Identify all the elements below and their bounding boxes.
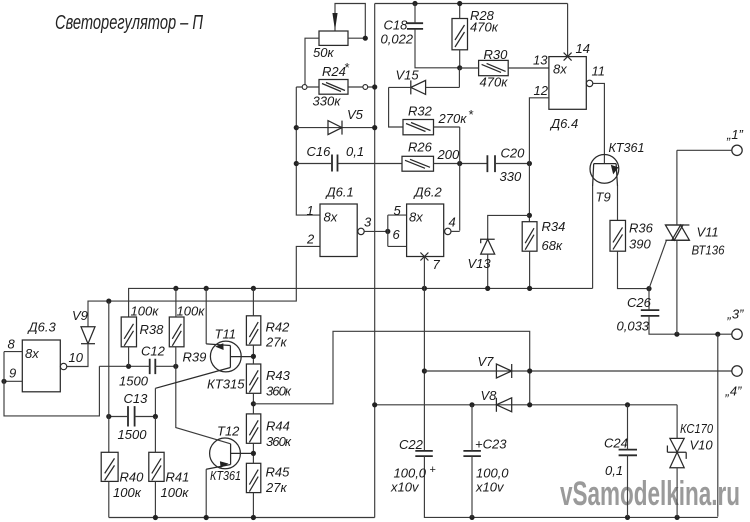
node R42 top junction	[251, 286, 256, 291]
wire terminal1 line	[677, 149, 732, 151]
svg-text:3: 3	[364, 215, 372, 230]
svg-text:1500: 1500	[118, 427, 148, 442]
node R41 bottom junction	[153, 515, 158, 520]
node C18 R28 R30 V15 junction	[457, 65, 462, 70]
node V11 anode junction	[674, 332, 679, 337]
resistor R32 270k	[403, 120, 434, 135]
node V10 bottom junction	[675, 515, 680, 520]
svg-text:R41: R41	[166, 470, 190, 485]
svg-text:R39: R39	[183, 350, 207, 365]
svg-text:Д6.3: Д6.3	[27, 320, 57, 335]
svg-text:R30: R30	[484, 47, 509, 62]
svg-text:С18: С18	[384, 18, 409, 33]
svg-text:4: 4	[449, 215, 456, 230]
svg-text:„3”: „3”	[727, 307, 745, 322]
node T11 emitter junction	[204, 286, 209, 291]
resistor R44 360k	[246, 414, 260, 443]
capacitor C18 0.022	[407, 23, 423, 29]
wire C20 right	[495, 163, 529, 165]
wire V15 to R32	[389, 87, 403, 127]
wire R40 bottom	[108, 481, 110, 517]
op-amp U Д6.4 gate box	[549, 57, 586, 110]
transistor Q T11 KT315	[155, 341, 253, 388]
wire V8 line	[375, 404, 677, 406]
svg-text:КТ315: КТ315	[207, 377, 245, 392]
node R45 bottom junction	[251, 515, 256, 520]
wire triac gate diagonal	[649, 240, 667, 288]
wire V11 main leads	[676, 150, 678, 334]
svg-text:КТ361: КТ361	[210, 468, 241, 483]
svg-text:100к: 100к	[177, 304, 206, 319]
svg-text:х10v: х10v	[475, 480, 505, 495]
svg-text:470к: 470к	[480, 75, 509, 90]
pin 4 output circle	[445, 228, 451, 234]
node V5 rail junction	[372, 125, 377, 130]
node bracket junction	[385, 229, 390, 234]
resistor R24 330k	[319, 80, 348, 95]
wire C26 leads and line 3	[649, 289, 732, 335]
svg-text:+С23: +С23	[475, 437, 507, 452]
svg-text:1500: 1500	[119, 374, 149, 389]
wire pot left lead	[305, 38, 319, 84]
svg-text:27к: 27к	[265, 335, 287, 350]
svg-text:10: 10	[69, 350, 84, 365]
wire right riser	[717, 334, 719, 516]
svg-text:8х: 8х	[409, 210, 423, 225]
node bus riser junction	[715, 332, 720, 337]
resistor R38 100k	[121, 317, 136, 347]
svg-text:68к: 68к	[542, 238, 563, 253]
svg-text:100,0: 100,0	[476, 466, 509, 481]
svg-text:V11: V11	[697, 225, 719, 240]
svg-text:R24: R24	[322, 64, 346, 79]
wire pin3 to bracket	[364, 230, 388, 232]
node triac gate node	[646, 286, 651, 291]
node R39 top junction	[173, 286, 178, 291]
resistor R26 200	[402, 156, 434, 171]
svg-text:470к: 470к	[470, 20, 499, 35]
svg-text:13: 13	[533, 53, 548, 68]
svg-text:С26: С26	[627, 295, 652, 310]
svg-text:14: 14	[576, 41, 590, 56]
svg-text:ВТ136: ВТ136	[692, 243, 726, 258]
svg-text:11: 11	[592, 64, 606, 79]
node V8 rail junction	[372, 402, 377, 407]
svg-text:360к: 360к	[266, 434, 292, 449]
svg-text:7: 7	[433, 257, 441, 272]
wire R39 down and diagonal to T12	[176, 288, 231, 443]
wire V13 down	[487, 254, 489, 288]
svg-text:С12: С12	[141, 344, 166, 359]
wire T11 emitter up	[205, 288, 207, 344]
capacitor C23 100.0	[463, 451, 481, 456]
svg-text:0,022: 0,022	[381, 32, 414, 47]
svg-text:100к: 100к	[113, 485, 142, 500]
triac V11 BT136	[665, 225, 689, 240]
node C13 right junction	[153, 414, 158, 419]
node C18 top junction	[412, 1, 417, 6]
svg-text:R43: R43	[266, 368, 291, 383]
node C23 top junction	[469, 402, 474, 407]
terminal 4	[732, 366, 742, 376]
wire R32 feedback vertical	[434, 127, 460, 231]
svg-text:330к: 330к	[313, 94, 342, 109]
resistor R41 100k	[149, 452, 164, 481]
svg-text:R45: R45	[266, 465, 291, 480]
svg-text:R42: R42	[266, 320, 291, 335]
wire pin8 pin9	[4, 352, 22, 382]
potentiometer 50k wiper arrow	[332, 13, 337, 31]
svg-text:R38: R38	[140, 322, 165, 337]
diode V8	[496, 398, 511, 412]
svg-text:330: 330	[500, 169, 522, 184]
capacitor C13 1500	[128, 406, 135, 426]
wire T9 collector down to 288 line	[592, 186, 594, 288]
node C24 bottom junction	[625, 515, 630, 520]
resistor R42 27k	[246, 316, 260, 345]
wire top bus	[375, 3, 568, 5]
wire V13 branch	[488, 215, 530, 239]
wire C13 branch from T11	[154, 388, 156, 416]
svg-text:КС170: КС170	[680, 421, 714, 436]
diode V7	[496, 364, 511, 378]
svg-text:Т12: Т12	[217, 424, 240, 439]
resistor R40 100k	[101, 452, 118, 481]
svg-text:С20: С20	[501, 146, 526, 161]
svg-text:9: 9	[9, 366, 16, 381]
wire V7 line to terminal 4	[424, 370, 731, 372]
svg-text:С22: С22	[399, 437, 424, 452]
wire 301 line V9 to pin2	[88, 246, 320, 326]
wire R36 bottom to gate node	[618, 251, 650, 288]
node V5 left junction	[294, 125, 299, 130]
node V13 bottom junction	[485, 286, 490, 291]
wire pin9 net to C12	[4, 352, 99, 416]
wire C18 leads	[415, 4, 459, 68]
wire C22 bottom and right bus	[424, 456, 717, 517]
node V13 branch junction	[527, 213, 532, 218]
svg-text:8х: 8х	[324, 210, 338, 225]
transistor Q T12 KT361	[206, 438, 253, 469]
node pin12 C20 junction	[528, 162, 530, 164]
wire pot right lead	[348, 37, 365, 39]
node T12 base junction	[251, 451, 256, 456]
svg-text:Светорегулятор – П: Светорегулятор – П	[55, 12, 203, 34]
node pin8 pin9 junction	[1, 379, 6, 384]
op-amp U Д6.2 gate box	[407, 204, 444, 257]
wire R38 bottom lead	[128, 347, 130, 367]
svg-text:vSamodelkina.ru: vSamodelkina.ru	[560, 475, 740, 513]
node C20 right junction	[527, 161, 532, 166]
svg-text:V15: V15	[396, 68, 420, 83]
pin 12 wire	[529, 98, 549, 222]
capacitor C16 0.1	[332, 155, 338, 172]
svg-text:R40: R40	[120, 470, 145, 485]
terminal 3	[732, 329, 742, 339]
node R28 top junction	[457, 1, 462, 6]
svg-text:R36: R36	[629, 221, 654, 236]
svg-text:2: 2	[306, 232, 315, 247]
wire R42-R45 column leads	[252, 288, 254, 517]
svg-text:R34: R34	[542, 219, 566, 234]
resistor R43 360k	[246, 364, 260, 393]
potentiometer 50k body	[319, 31, 348, 45]
svg-text:+: +	[430, 464, 436, 476]
svg-text:V13: V13	[468, 256, 492, 271]
wire V15 line	[389, 68, 460, 88]
svg-text:Т9: Т9	[596, 190, 611, 205]
wire C13 branch vertical	[108, 301, 110, 452]
node C13 branch top junction	[106, 299, 111, 304]
node C23 bottom junction	[469, 515, 474, 520]
pin 11 output circle	[586, 80, 592, 86]
svg-text:390: 390	[629, 237, 651, 252]
op-amp U Д6.3 gate box	[22, 340, 60, 392]
resistor R30 470k	[479, 60, 509, 75]
svg-text:100к: 100к	[131, 304, 160, 319]
svg-text:V5: V5	[347, 107, 364, 122]
wire pin5 pin6 bracket	[388, 215, 407, 246]
wire C24 leads	[627, 405, 629, 518]
wire route R43R44 to V7V8	[253, 331, 529, 405]
svg-text:х10v: х10v	[390, 480, 420, 495]
wire C23 leads	[471, 405, 473, 518]
svg-text:8: 8	[8, 337, 16, 352]
svg-text:6: 6	[393, 227, 401, 242]
diode V5	[328, 121, 342, 135]
resistor R45 27k	[246, 463, 260, 492]
node R24 left terminal circle	[302, 85, 307, 90]
pin 14 cross mark	[564, 53, 572, 61]
svg-text:С16: С16	[307, 144, 332, 159]
capacitor C26 0.033	[641, 310, 660, 316]
svg-text:„4”: „4”	[725, 384, 743, 399]
svg-text:12: 12	[534, 83, 549, 98]
svg-text:„1”: „1”	[726, 127, 744, 142]
svg-text:V10: V10	[690, 438, 714, 453]
svg-text:8х: 8х	[553, 62, 567, 77]
svg-text:С24: С24	[604, 436, 628, 451]
terminal 1	[732, 145, 742, 155]
capacitor C20 330	[487, 155, 495, 172]
node R26 C20 junction	[457, 161, 462, 166]
node V7 left junction	[422, 368, 427, 373]
diode V15	[411, 80, 426, 94]
pin 3 output circle	[358, 228, 364, 234]
wire V5 line	[296, 127, 374, 129]
wire R41 leads	[154, 417, 156, 518]
svg-text:V8: V8	[481, 388, 498, 403]
op-amp U Д6.1 gate box	[320, 204, 357, 257]
svg-text:R44: R44	[266, 419, 290, 434]
node R34 bottom junction	[527, 286, 532, 291]
node V8 right junction	[527, 402, 532, 407]
pin 7 cross mark	[420, 253, 428, 261]
svg-text:R32: R32	[408, 104, 433, 119]
svg-text:0,1: 0,1	[346, 144, 364, 159]
node pin7 junction	[422, 286, 427, 291]
wire R30 line pin13	[460, 67, 549, 69]
wire 288 bus line	[129, 288, 593, 317]
svg-text:50к: 50к	[313, 45, 334, 60]
wire left rail	[374, 4, 376, 518]
resistor R34 68k	[522, 222, 537, 252]
wire T12 emitter down	[205, 469, 207, 517]
node pot right junction	[363, 36, 368, 41]
svg-text:V9: V9	[72, 308, 88, 323]
svg-text:R26: R26	[408, 140, 433, 155]
wire R24 line	[296, 86, 374, 88]
wire R26 to C20	[434, 163, 488, 165]
node R38 bottom junction	[126, 364, 131, 369]
svg-text:Д6.1: Д6.1	[325, 185, 354, 200]
wire V10 leads	[676, 405, 678, 518]
wire pin4 feedback	[451, 230, 460, 232]
wire C16 line	[296, 163, 402, 165]
wire V9 to pin10	[67, 344, 88, 367]
transistor Q T9 KT361	[590, 155, 619, 187]
node R24 rail junction	[372, 84, 377, 89]
wire R28 leads	[459, 4, 461, 68]
node C13 left junction	[106, 414, 111, 419]
wire C13 line	[109, 416, 156, 418]
resistor R28 470k	[452, 19, 468, 50]
svg-text:0,033: 0,033	[617, 319, 650, 334]
node R39 C12 junction	[173, 364, 178, 369]
svg-text:КТ361: КТ361	[609, 140, 645, 155]
svg-text:100к: 100к	[161, 485, 190, 500]
wire pin7 down through C22	[423, 257, 425, 451]
diode V9	[81, 327, 95, 344]
svg-text:Д6.4: Д6.4	[549, 116, 578, 131]
wire left vertical to pin1	[296, 87, 320, 215]
wire bottom bus left segment	[109, 517, 375, 519]
svg-text:270к: 270к	[438, 111, 468, 126]
node R24 right terminal circle	[363, 85, 368, 90]
wire C12 line	[99, 365, 175, 367]
svg-text:Т11: Т11	[215, 327, 236, 342]
capacitor C22 100.0	[415, 451, 433, 456]
wire pin11 to T9 base	[593, 83, 605, 163]
svg-text:5: 5	[394, 203, 402, 218]
svg-text:1: 1	[307, 203, 314, 218]
wire T9 emitter to R36	[617, 186, 619, 220]
node T11 base junction	[251, 354, 256, 359]
svg-text:200: 200	[437, 147, 460, 162]
zener V10 KC170	[667, 438, 686, 467]
svg-text:С13: С13	[124, 391, 149, 406]
svg-text:360к: 360к	[266, 384, 292, 399]
resistor R36 390	[610, 220, 626, 251]
potentiometer 50k wiper wire	[335, 4, 365, 39]
svg-text:V7: V7	[478, 354, 495, 369]
node V7 right junction	[527, 368, 532, 373]
capacitor C12 1500	[150, 359, 156, 374]
svg-text:0,1: 0,1	[605, 463, 623, 478]
svg-text:8х: 8х	[25, 346, 39, 361]
capacitor C24 0.1	[619, 450, 637, 456]
node C24 top junction	[625, 402, 630, 407]
resistor R39 100k	[169, 317, 184, 347]
zener diode V13	[481, 239, 495, 254]
node T12 emitter bottom junction	[204, 515, 209, 520]
wire R34 bottom	[529, 251, 531, 288]
svg-text:100,0: 100,0	[394, 466, 427, 481]
node C16 left junction	[294, 161, 299, 166]
wire pin14 drop	[567, 4, 569, 57]
svg-text:27к: 27к	[265, 480, 287, 495]
pin 10 output circle	[60, 363, 66, 369]
node R43 R44 junction	[251, 401, 256, 406]
svg-text:Д6.2: Д6.2	[413, 185, 443, 200]
